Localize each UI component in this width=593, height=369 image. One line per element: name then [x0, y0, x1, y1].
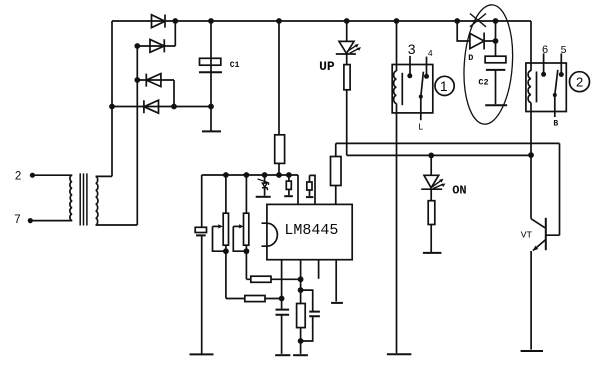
node relay K1 pivot: [419, 95, 423, 99]
resistor R6 big: [331, 157, 342, 186]
node relay K1 pin 4: [424, 74, 429, 79]
wire relay K1 contact L lead: [420, 97, 422, 121]
wire transistor emitter down: [530, 251, 532, 350]
svg-text:B: B: [553, 120, 558, 129]
resistor R5 small: [286, 181, 291, 189]
svg-text:D: D: [468, 53, 473, 63]
wire terminal 2 lead: [32, 174, 72, 176]
node RP2 bottom: [244, 248, 250, 254]
zener diode VD5: [258, 179, 269, 190]
IC U1 LM8445 body: [262, 204, 353, 259]
wire trimmer RP2 column: [245, 175, 247, 279]
wire RP2 wiper link: [233, 226, 246, 251]
wire RP1 wiper link: [213, 226, 226, 251]
wire IC pin3 top column with stub: [310, 175, 316, 204]
wire bus lower: [347, 154, 531, 156]
wire middle bridge rail: [136, 46, 138, 225]
wire relay K2 coil to bus and transistor: [530, 103, 532, 219]
ground bar R8: [293, 354, 308, 356]
relay K2 coil: [528, 71, 531, 103]
diode VD3: [146, 74, 161, 87]
relay K2 pin 5 lead: [560, 53, 562, 74]
capacitor C4 bottom: [276, 310, 290, 315]
LED ON symbol: [421, 175, 445, 189]
node IC pin B upper junction: [298, 276, 304, 282]
wire diode D branch in ellipse: [457, 21, 495, 41]
transformer T1 core: [80, 173, 87, 225]
ground bar bridge: [202, 130, 221, 132]
relay K1 box: [392, 65, 433, 113]
relay K1 pin 4 lead: [426, 57, 428, 77]
wire IC pin B bottom column: [300, 260, 302, 354]
node terminal 2: [30, 173, 35, 178]
svg-text:7: 7: [14, 214, 20, 226]
node bus lower LED ON: [428, 153, 434, 159]
node bridge negative mid: [171, 104, 177, 110]
resistor R4 horizontal: [245, 296, 265, 302]
relay K1 pin 3 lead: [409, 56, 411, 76]
node IC pin B cap branch: [298, 287, 304, 293]
resistor R8 vertical bottom: [297, 304, 306, 328]
svg-text:5: 5: [561, 44, 567, 56]
node top rail at VD2: [172, 18, 178, 24]
node top rail at LED UP: [344, 18, 350, 24]
trimmer RP1: [213, 213, 229, 245]
capacitor C1: [199, 58, 222, 72]
wire C1 column: [210, 21, 212, 131]
node mid rail RP2: [244, 172, 250, 178]
wire bridge negative row: [112, 106, 211, 108]
LED UP symbol: [336, 41, 361, 54]
node relay K2 pin 6: [541, 72, 546, 77]
node top rail at R1: [276, 18, 282, 24]
marker circle 1: [435, 76, 454, 95]
wire bottom cap branch: [301, 290, 313, 341]
wire IC pin D bottom: [335, 260, 337, 302]
node top rail at diode D: [454, 18, 460, 24]
svg-text:VT: VT: [521, 230, 533, 241]
relay K1 coil: [394, 71, 397, 103]
wire diode VD2 branch to top rail: [137, 21, 175, 46]
node top rail at C2: [493, 18, 499, 24]
node top rail at relay K1: [394, 18, 400, 24]
node relay K2 pivot: [553, 93, 557, 97]
wire top positive rail: [112, 20, 531, 22]
node RP1 bottom: [223, 248, 229, 254]
wire IC pin C stub: [318, 260, 320, 279]
trimmer RP2: [233, 213, 249, 245]
node relay K1 pin 3: [407, 73, 412, 78]
resistor R9 under LED ON: [428, 201, 435, 225]
ellipse highlight: [460, 3, 516, 126]
resistor R7 small: [307, 182, 312, 190]
svg-text:L: L: [418, 123, 423, 133]
ground bar transistor emitter: [521, 350, 543, 352]
ground bar R7: [306, 196, 313, 198]
transformer T1 secondary coil: [96, 176, 98, 225]
node relay K2 pin 5: [559, 72, 564, 77]
svg-text:3: 3: [408, 41, 416, 57]
relay K2 switch arm: [555, 70, 558, 95]
resistor R1 tall: [275, 135, 285, 164]
node IC pin A junction: [279, 296, 285, 302]
svg-text:2: 2: [15, 170, 21, 182]
svg-text:1: 1: [440, 78, 448, 94]
wire row to IC pin via R4: [226, 298, 282, 300]
wire diode VD3 branch down: [137, 80, 174, 107]
relay K2 core line: [536, 72, 538, 103]
node terminal 7: [28, 218, 33, 223]
capacitor C3 left: [195, 227, 206, 235]
node bridge VD3: [134, 77, 140, 83]
wire secondary top lead: [96, 175, 112, 177]
wire LED ON column: [430, 155, 432, 252]
wire zener column: [264, 175, 266, 196]
ground bar IC pin D: [331, 302, 343, 304]
node diode D cathode: [493, 38, 499, 44]
wire small resistor R5 column: [288, 175, 290, 195]
svg-text:4: 4: [428, 48, 433, 58]
resistor R2 under LED UP: [344, 65, 350, 90]
ground bar C2: [485, 104, 507, 106]
svg-text:2: 2: [576, 75, 583, 90]
diode D in ellipse: [470, 33, 484, 50]
node bridge VD2: [134, 43, 140, 49]
wire relay K1 coil column: [396, 21, 398, 353]
wire left bridge rail: [111, 21, 113, 176]
svg-text:6: 6: [542, 44, 548, 56]
ground bar relay K1 coil: [387, 353, 412, 355]
node mid rail R5: [286, 172, 292, 178]
wire left cap column: [201, 175, 203, 354]
capacitor C2: [485, 56, 506, 70]
wire mid supply rail: [202, 174, 298, 176]
ground bar LED ON: [423, 252, 442, 254]
wire terminal 7 lead: [30, 220, 72, 222]
svg-text:ON: ON: [452, 184, 466, 198]
relay K1 core line: [401, 73, 403, 105]
svg-text:C1: C1: [230, 61, 240, 70]
wire big resistor R6 column: [335, 143, 337, 204]
node bridge negative left: [109, 104, 115, 110]
svg-text:C2: C2: [478, 78, 488, 88]
resistor R3 horizontal: [251, 276, 271, 282]
node top rail at C1: [208, 18, 214, 24]
node bus lower relay K2: [528, 152, 534, 158]
marker circle 2: [570, 72, 590, 92]
wire bus upper: [336, 143, 560, 235]
wire LED UP column: [346, 21, 348, 155]
ground bar left column: [190, 353, 214, 355]
wire relay K2 contact B lead: [554, 95, 556, 117]
wire secondary bottom lead: [96, 224, 138, 226]
relay K2 pin 6 lead: [543, 53, 545, 74]
node mid rail RP1: [223, 172, 229, 178]
ground bar zener: [256, 196, 271, 198]
wire row to IC pin via R3: [246, 278, 300, 280]
capacitor C5 bottom: [309, 312, 320, 317]
wire long resistor column from rail: [278, 21, 280, 175]
svg-text:UP: UP: [319, 59, 335, 74]
diode VD1: [152, 15, 166, 28]
wire C2 column: [495, 21, 497, 104]
node mid rail R1: [276, 172, 282, 178]
wire cap A lower lead: [281, 315, 283, 354]
svg-text:LM8445: LM8445: [284, 222, 338, 239]
wire relay2 feed drop: [530, 21, 532, 71]
node R8 bottom junction: [298, 338, 304, 344]
wire IC pin A bottom column: [281, 260, 283, 310]
wire IC pin2 top column: [297, 175, 299, 204]
relay K2 box: [526, 63, 566, 112]
diode VD4: [144, 100, 159, 113]
X mark on wire: [470, 14, 486, 27]
diode VD2: [150, 39, 164, 52]
transistor VT: [531, 218, 546, 251]
ground bar C4: [275, 354, 290, 356]
ground bar R5: [284, 195, 293, 197]
transformer T1 primary coil: [70, 175, 72, 220]
relay K1 switch arm: [421, 72, 424, 97]
wire trimmer RP1 column: [225, 175, 227, 299]
node mid rail zener: [262, 172, 268, 178]
node bridge negative C1: [208, 104, 214, 110]
